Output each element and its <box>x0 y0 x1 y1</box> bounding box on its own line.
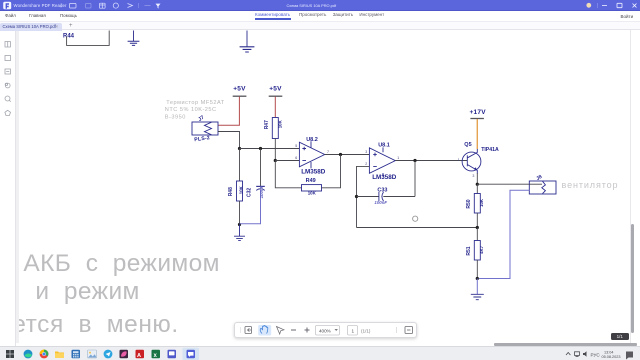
page indicator 1/1 <box>611 333 629 340</box>
resistor R44 (partial, top edge) <box>63 31 109 46</box>
svg-text:TIP41A: TIP41A <box>481 147 499 153</box>
big gray document text line 2 <box>35 278 139 306</box>
ground (top middle) <box>240 31 255 53</box>
floating bottom toolbar <box>234 322 417 339</box>
big gray document text line 1 <box>23 250 220 278</box>
svg-text:4K7: 4K7 <box>479 245 484 254</box>
junction R47 / inverting input <box>274 159 277 162</box>
svg-text:10K: 10K <box>308 190 317 195</box>
wire red +5V to J7 pin1 <box>218 97 239 126</box>
svg-text:Термистор MF52AT: Термистор MF52AT <box>166 100 224 106</box>
title bar <box>0 0 640 11</box>
svg-text:LM358D: LM358D <box>301 169 326 176</box>
wire U8.2 out to U8.1 pin3 <box>325 154 370 156</box>
svg-text:LM358D: LM358D <box>372 174 397 181</box>
svg-text:C33: C33 <box>377 187 387 193</box>
svg-text:B-3950: B-3950 <box>165 115 186 121</box>
svg-text:13:04: 13:04 <box>604 351 614 355</box>
connector J7 PLS-2 <box>192 115 218 144</box>
tab strip <box>0 21 640 30</box>
wire J7 pin2 to node A <box>218 132 240 149</box>
op-amp U8.2 <box>295 137 329 176</box>
svg-text:5: 5 <box>295 144 297 148</box>
node out U8.2 junction <box>339 153 342 156</box>
svg-text:NTC 5% 10K-25C: NTC 5% 10K-25C <box>165 107 217 113</box>
node divider junction <box>476 226 479 229</box>
big gray document text line 3 <box>12 311 178 339</box>
node out U8.1 junction <box>413 159 416 162</box>
svg-text:+5V: +5V <box>269 85 282 92</box>
resistor R49 feedback <box>275 155 340 196</box>
ground (bottom) <box>471 294 484 299</box>
svg-text:R48: R48 <box>228 187 234 196</box>
power +5V (left) <box>233 85 247 96</box>
resistor R47 <box>264 118 283 161</box>
node R51 bottom junction <box>476 277 479 280</box>
wire to ground (bottom) <box>476 279 478 295</box>
wire blue J8 pin2 to R51 bottom <box>479 190 529 278</box>
svg-text:2: 2 <box>365 162 367 166</box>
svg-text:3: 3 <box>472 174 474 178</box>
svg-text:3: 3 <box>365 150 367 154</box>
node B junction <box>476 183 479 186</box>
junction R48/C32 bottom <box>238 223 241 226</box>
annotation circle <box>413 216 418 221</box>
scrollbars <box>631 224 634 333</box>
svg-text:10K: 10K <box>238 185 243 194</box>
svg-text:C32: C32 <box>247 188 253 197</box>
svg-text:400%: 400% <box>319 328 331 333</box>
thermistor note text <box>165 100 225 121</box>
wire red +5V to R47 <box>274 97 276 118</box>
connector J8 <box>529 174 556 194</box>
svg-text:U8.2: U8.2 <box>306 137 318 143</box>
svg-text:R49: R49 <box>306 178 316 184</box>
svg-text:Q5: Q5 <box>464 142 471 148</box>
transistor Q5 TIP41A <box>458 142 499 178</box>
svg-text:1: 1 <box>352 328 355 333</box>
svg-text:100nF: 100nF <box>259 185 264 198</box>
capacitor C33 feedback <box>355 161 415 228</box>
wire node B to J8 pin1 <box>477 183 542 185</box>
svg-text:6: 6 <box>295 156 297 160</box>
power +5V (right) <box>269 85 283 96</box>
svg-text:+5V: +5V <box>233 85 246 92</box>
svg-text:R44: R44 <box>63 34 75 40</box>
ground (under R48) <box>234 236 245 240</box>
wire feedback to divider node <box>357 227 478 229</box>
left sidebar <box>0 30 16 346</box>
wire to U8.2 pin6 <box>275 160 299 162</box>
svg-text:+17V: +17V <box>470 109 487 116</box>
wire orange +17V to Q5 collector <box>476 119 478 149</box>
svg-text:10K: 10K <box>479 198 484 207</box>
capacitor C32 <box>240 149 265 224</box>
taskbar <box>0 346 640 360</box>
svg-text:1: 1 <box>397 156 399 160</box>
node A junction <box>238 147 241 150</box>
svg-text:A: A <box>137 353 141 359</box>
menu row <box>0 11 640 21</box>
svg-text:10K: 10K <box>277 119 282 128</box>
resistor R48 <box>228 149 243 225</box>
svg-text:R50: R50 <box>466 199 472 208</box>
wire to ground <box>239 225 241 237</box>
power +17V <box>470 109 487 119</box>
svg-text:7: 7 <box>327 150 329 154</box>
svg-text:PLS-2: PLS-2 <box>194 135 210 143</box>
svg-text:R47: R47 <box>264 120 270 129</box>
wire Q5 emitter to node B <box>476 173 478 184</box>
wire U8.1 out to Q5 base <box>395 160 467 162</box>
svg-text:вентилятор: вентилятор <box>562 180 619 190</box>
op-amp U8.1 <box>365 143 399 181</box>
svg-text:1: 1 <box>458 158 460 162</box>
svg-text:U8.1: U8.1 <box>378 143 390 149</box>
svg-text:(1/1): (1/1) <box>361 328 371 333</box>
node C32 junction <box>259 147 262 150</box>
svg-text:РУС: РУС <box>591 352 601 357</box>
svg-text:100nF: 100nF <box>374 200 387 205</box>
svg-text:05.08.2023: 05.08.2023 <box>602 355 621 359</box>
resistor R51 <box>466 228 484 279</box>
ground (top left) <box>128 31 140 46</box>
svg-text:R51: R51 <box>466 246 472 255</box>
wire node A to U8.2 pin5 <box>240 148 300 150</box>
resistor R50 <box>466 184 484 227</box>
